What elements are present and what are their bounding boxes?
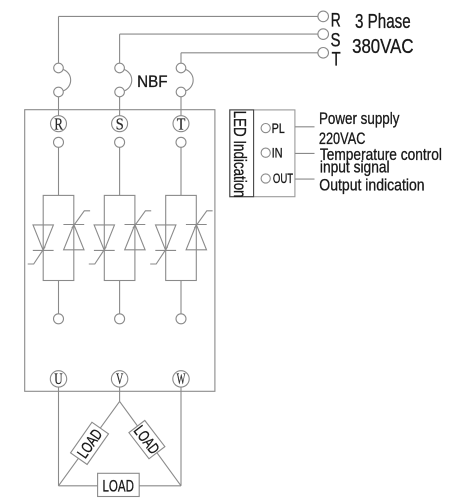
node T input circle [318, 48, 329, 59]
svg-text:T: T [177, 114, 186, 133]
node S input circle [318, 29, 329, 40]
terminal V circle [111, 371, 127, 387]
terminal U circle [50, 371, 66, 387]
svg-text:S: S [116, 114, 124, 133]
LED OUT circle [261, 174, 270, 183]
thyristor Q2a (down) [89, 225, 115, 264]
load resistor bottom [98, 473, 140, 496]
svg-text:NBF: NBF [137, 73, 167, 91]
contact circle phase1 top [54, 137, 64, 147]
contact circle phase1 bottom [54, 314, 64, 324]
thyristor Q3b (up) [186, 211, 213, 250]
SCR module 2 rect [104, 195, 135, 280]
wire delta right diagonal [120, 401, 181, 485]
wire U down [58, 387, 60, 486]
wire phase2 to SCR module [119, 147, 121, 195]
LED IN circle [261, 148, 270, 157]
enclosure box [25, 110, 215, 392]
contact circle phase3 top [176, 137, 186, 147]
pointer line PL [295, 126, 315, 128]
load resistor left (rotated) [71, 422, 109, 464]
terminal R circle [51, 116, 67, 132]
wire delta bottom [59, 485, 182, 487]
breaker NBF pole 2 [115, 63, 132, 97]
svg-text:3 Phase: 3 Phase [355, 11, 411, 33]
LED panel outer box [230, 110, 295, 197]
wire phase R top [59, 16, 318, 63]
wire SCR1 out [58, 281, 60, 314]
wire SCR2 out [119, 281, 121, 314]
breaker NBF pole 1 [54, 63, 71, 97]
svg-text:LOAD: LOAD [103, 476, 134, 495]
wire breaker1 to terminal R [58, 97, 60, 116]
svg-text:R: R [54, 114, 63, 133]
wire delta left diagonal [59, 401, 120, 485]
svg-text:V: V [116, 371, 124, 388]
pointer line IN [295, 152, 315, 154]
wire phase1 to SCR module [58, 147, 60, 195]
svg-text:Power supply: Power supply [319, 109, 400, 128]
svg-text:U: U [54, 371, 62, 388]
svg-text:W: W [177, 371, 186, 388]
thyristor Q1b (up) [63, 211, 90, 250]
svg-text:OUT: OUT [273, 171, 293, 186]
svg-text:input signal: input signal [320, 158, 390, 177]
wire breaker3 to terminal T [180, 97, 182, 116]
wire SCR3 out [180, 281, 182, 314]
svg-text:T: T [332, 49, 341, 71]
thyristor Q3a (down) [150, 225, 176, 264]
wire breaker2 to terminal S [119, 97, 121, 116]
contact circle phase3 bottom [176, 314, 186, 324]
contact circle phase2 top [115, 137, 125, 147]
wire W down [180, 387, 182, 486]
wire phase3 to SCR module [180, 147, 182, 195]
svg-text:Output indication: Output indication [319, 175, 424, 194]
breaker NBF pole 3 [176, 63, 193, 97]
thyristor Q2b (up) [125, 211, 152, 250]
load resistor right (rotated) [129, 420, 165, 458]
svg-text:R: R [331, 9, 341, 31]
terminal T circle [173, 116, 189, 132]
wire V down [119, 387, 121, 401]
wire phase S top [120, 34, 318, 63]
LED panel title column [230, 110, 254, 197]
svg-text:PL: PL [272, 121, 286, 136]
wire phase T top [181, 53, 318, 63]
SCR module 1 rect [43, 195, 74, 280]
contact circle phase2 bottom [115, 314, 125, 324]
node R input circle [318, 11, 329, 22]
svg-text:IN: IN [272, 146, 283, 161]
thyristor Q1a (down) [28, 225, 54, 264]
pointer line OUT [295, 178, 315, 180]
svg-text:LED Indication: LED Indication [230, 111, 250, 198]
SCR module 3 rect [166, 195, 197, 280]
terminal S circle [112, 116, 128, 132]
terminal W circle [173, 371, 189, 387]
svg-text:380VAC: 380VAC [352, 36, 413, 58]
LED PL circle [261, 124, 270, 133]
